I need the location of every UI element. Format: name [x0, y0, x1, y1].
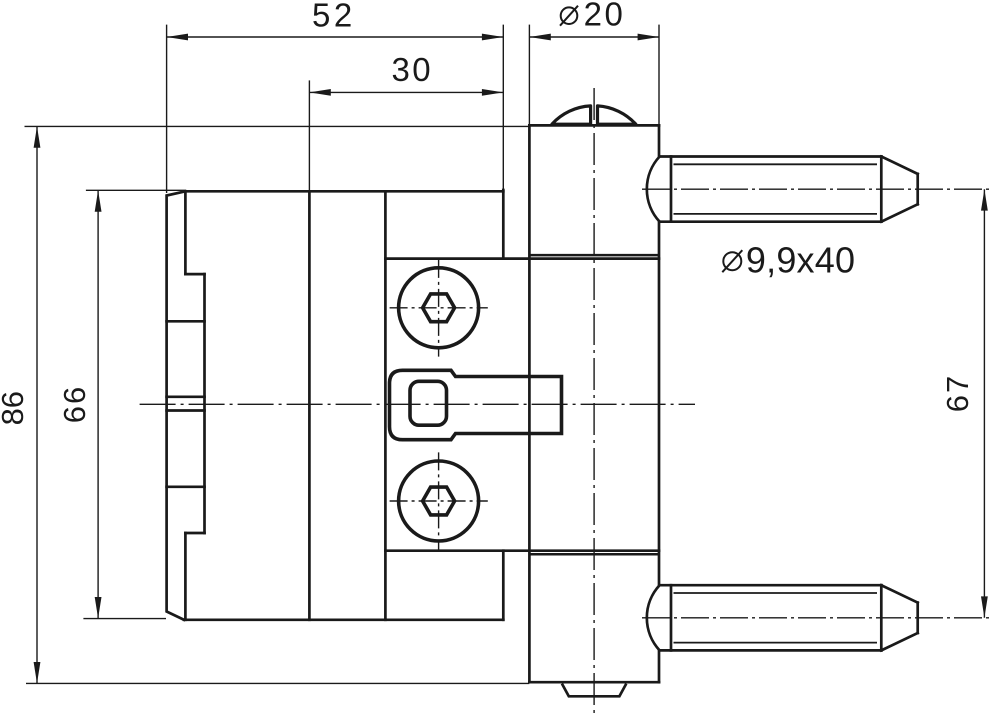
- top pin cylinder top edge: [660, 155, 882, 158]
- clamp tongue inner square: [410, 381, 447, 425]
- svg-text:67: 67: [940, 374, 975, 412]
- arrow 67 top: [981, 189, 988, 210]
- extension line body left (d20): [528, 25, 530, 125]
- bottom pin: [647, 585, 918, 650]
- top pin cap arc: [647, 157, 660, 222]
- bottom screw vertical centerline: [438, 452, 440, 550]
- top pin taper shoulder: [880, 157, 883, 222]
- dimension line 30: [309, 91, 503, 93]
- extension line leaf right edge (52/30 dims): [502, 25, 504, 190]
- leaf right edge lower: [502, 551, 505, 620]
- dome right half: [598, 106, 636, 124]
- main horizontal centerline: [140, 403, 695, 405]
- clamp strip line 3: [167, 409, 205, 412]
- screw block bottom edge: [385, 549, 659, 552]
- body lower junction thin line: [530, 553, 659, 556]
- extension line 66 top: [86, 189, 186, 191]
- top screw hex socket: [423, 294, 455, 322]
- arrow 66 bottom: [95, 597, 102, 618]
- leaf fold line lower segment: [184, 533, 187, 620]
- arrow 30 right: [482, 89, 503, 96]
- top pin tip flat: [916, 174, 919, 204]
- clamp strip step bottom: [185, 532, 204, 535]
- leaf right edge upper: [502, 190, 505, 259]
- svg-text:66: 66: [57, 385, 92, 423]
- extension line x=309 (30 dim, left): [308, 80, 310, 190]
- bottom screw end (trapezoid): [562, 684, 626, 697]
- body upper junction thin line: [530, 254, 659, 257]
- bottom pin cone bottom: [881, 633, 917, 650]
- clamp strip line 2: [167, 395, 205, 398]
- top adjusting screw dome: [552, 106, 636, 124]
- dimension line 67: [983, 189, 985, 618]
- extension line left leaf edge (52 dim, left): [166, 25, 168, 193]
- dimension line d20: [529, 36, 659, 38]
- top pin thread core top: [674, 163, 878, 165]
- dimension line 66: [97, 190, 99, 618]
- leaf inner vertical x=309: [308, 191, 311, 620]
- top pin cap boundary: [670, 157, 673, 222]
- dimension line 86: [36, 126, 38, 683]
- bottom screw hex socket: [423, 487, 455, 515]
- top pin cone top: [881, 157, 917, 174]
- top pin cylinder bottom edge: [660, 220, 882, 223]
- body vertical centerline: [593, 88, 595, 716]
- body right edge lower: [658, 650, 661, 682]
- bottom pin cap boundary: [670, 585, 673, 650]
- top screw horizontal centerline: [390, 307, 488, 309]
- dome left half: [552, 106, 591, 124]
- arrow 86 bottom: [34, 662, 41, 683]
- clamp strip right edge: [203, 274, 206, 533]
- leaf top edge: [185, 190, 503, 193]
- body right edge upper: [658, 125, 661, 156]
- top pin cone bottom: [881, 204, 917, 221]
- top pin centerline: [642, 188, 992, 190]
- leaf outer left edge with chamfers: [167, 191, 186, 620]
- extension line 86 bottom: [26, 682, 529, 684]
- top screw vertical centerline: [438, 260, 440, 357]
- bottom screw circle: [399, 461, 479, 541]
- arrow 52 left: [167, 34, 188, 41]
- diameter symbol of d20: [560, 6, 578, 26]
- body left edge: [528, 125, 531, 682]
- extension line 86 top: [25, 125, 530, 127]
- clamp tongue outer: [390, 370, 562, 439]
- bottom pin cap arc: [647, 585, 660, 650]
- bottom pin thread core bottom: [674, 642, 878, 644]
- svg-text:52: 52: [312, 0, 356, 34]
- arrow 66 top: [95, 190, 102, 211]
- bottom screw horizontal centerline: [390, 500, 488, 502]
- body bottom edge: [529, 681, 659, 684]
- svg-text:30: 30: [391, 51, 433, 88]
- leaf inner vertical x=385: [384, 191, 387, 620]
- leaf bottom edge: [184, 618, 503, 621]
- arrow 30 left: [309, 89, 330, 96]
- bottom pin cone top: [881, 585, 917, 602]
- svg-text:86: 86: [0, 391, 30, 425]
- arrow d20 right: [638, 34, 659, 41]
- clamp strip line 1: [167, 320, 205, 323]
- arrow d20 left: [529, 34, 550, 41]
- svg-text:9,9x40: 9,9x40: [746, 239, 855, 280]
- arrow 67 bottom: [981, 596, 988, 617]
- clamp strip step top: [185, 273, 204, 276]
- top screw circle: [399, 268, 479, 348]
- bottom pin taper shoulder: [880, 585, 883, 650]
- screw block top edge: [385, 257, 659, 260]
- body top edge: [529, 124, 659, 127]
- dimension line 52: [167, 36, 504, 38]
- bottom pin cylinder bottom edge: [660, 649, 882, 652]
- body right edge middle: [658, 222, 661, 586]
- arrow 86 top: [34, 126, 41, 147]
- bottom pin thread core top: [674, 592, 878, 594]
- bottom pin centerline: [642, 617, 990, 619]
- clamp strip line 4: [167, 485, 205, 488]
- leaf fold line upper segment: [184, 191, 187, 274]
- diameter symbol of d9,9: [722, 250, 742, 272]
- arrow 52 right: [482, 34, 503, 41]
- top pin thread core bottom: [674, 213, 878, 215]
- extension line body right (d20): [658, 25, 660, 125]
- svg-text:20: 20: [584, 0, 626, 33]
- bottom pin tip flat: [916, 603, 919, 633]
- top pin: [647, 157, 918, 222]
- bottom pin cylinder top edge: [660, 584, 882, 587]
- extension line 66 bottom: [83, 618, 166, 620]
